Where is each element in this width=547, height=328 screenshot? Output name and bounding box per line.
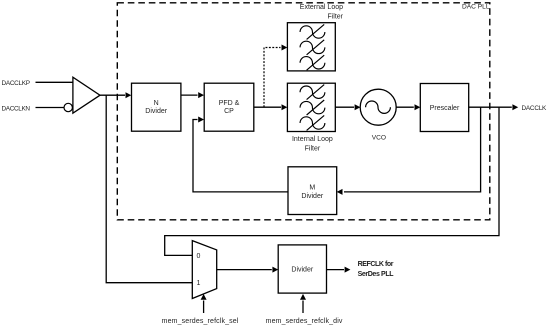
svg-text:DACCLK: DACCLK (522, 105, 547, 112)
VCO (circle with sine) (360, 89, 396, 125)
svg-text:M: M (309, 184, 315, 191)
svg-text:VCO: VCO (372, 135, 386, 142)
svg-text:mem_serdes_refclk_sel: mem_serdes_refclk_sel (162, 318, 239, 325)
svg-text:CP: CP (224, 108, 234, 115)
svg-text:Prescaler: Prescaler (430, 105, 460, 112)
svg-text:Filter: Filter (327, 13, 343, 20)
svg-text:External Loop: External Loop (300, 4, 343, 11)
internal loop filter box (287, 83, 335, 131)
wire DACCLK branch down to mux input 0 (165, 107, 499, 255)
svg-text:DAC PLL: DAC PLL (462, 4, 490, 11)
DAC PLL dashed boundary (117, 3, 490, 220)
svg-text:SerDes PLL: SerDes PLL (358, 271, 395, 278)
svg-text:Divider: Divider (145, 108, 167, 115)
wire mux output to Divider (217, 269, 272, 271)
wire divider control (302, 301, 304, 314)
dashed wire to external loop filter (264, 48, 281, 108)
wire DACCLKN lead (36, 107, 65, 109)
svg-text:1: 1 (197, 280, 201, 287)
wire buffer output to N Divider (100, 94, 125, 96)
mux (trapezoid) (192, 241, 216, 299)
wire DACCLKP lead (36, 81, 73, 83)
wire internal filter to VCO (335, 106, 354, 108)
svg-text:DACCLKN: DACCLKN (2, 105, 31, 112)
svg-text:0: 0 (197, 253, 201, 260)
svg-text:N: N (154, 100, 159, 107)
PFD & CP box (204, 83, 254, 131)
wire VCO to Prescaler (396, 106, 414, 108)
Prescaler box (420, 84, 468, 132)
svg-text:Divider: Divider (291, 267, 313, 274)
inverter bubble on DACCLKN (64, 103, 72, 111)
wire Divider output (327, 269, 345, 271)
wire branch down to mux input 1 (106, 95, 192, 283)
svg-text:Filter: Filter (305, 145, 321, 152)
wire Prescaler to DACCLK output (469, 106, 512, 108)
svg-text:REFCLK for: REFCLK for (358, 261, 394, 268)
wire N Divider to PFD (181, 94, 198, 96)
svg-text:mem_serdes_refclk_div: mem_serdes_refclk_div (266, 318, 343, 325)
input buffer (triangle) (73, 77, 100, 113)
svg-text:Divider: Divider (301, 193, 323, 200)
svg-text:DACCLKP: DACCLKP (2, 80, 31, 87)
external loop filter box (287, 23, 335, 71)
svg-text:Internal Loop: Internal Loop (292, 136, 333, 143)
N Divider box (132, 83, 181, 131)
wire PFD output to internal loop filter (254, 106, 281, 108)
wire M Divider output up to PFD second input (193, 120, 288, 192)
M Divider box (288, 167, 337, 215)
Divider box (SerDes refclk divider) (278, 245, 326, 293)
wire mux select (203, 301, 205, 314)
wire feedback branch down to M Divider (344, 107, 481, 192)
svg-text:PFD &: PFD & (219, 100, 240, 107)
